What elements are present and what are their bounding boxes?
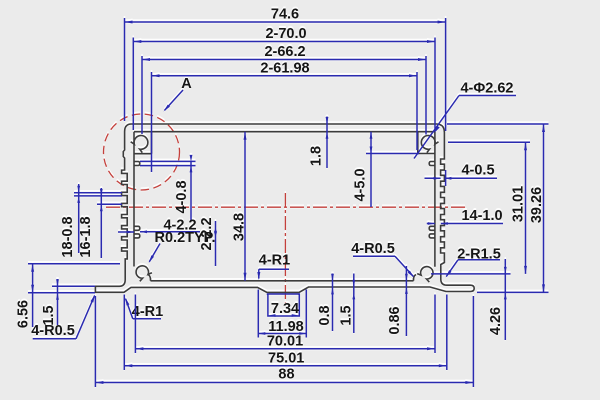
dimension 18-0.8 [60,184,80,258]
svg-text:2-70.0: 2-70.0 [265,26,306,42]
right wall PCB rib 1 [429,162,435,166]
ext lines ribs 0.8 [140,161,196,165]
svg-text:1.8: 1.8 [309,146,325,166]
top-left pocket wall [151,132,153,154]
dimension 2-70.0 [133,26,435,43]
dimension 0.86 bottom [387,266,408,336]
dimension 4-5.0 [353,132,373,207]
svg-text:4-R1: 4-R1 [132,304,163,320]
dimension 2-66.2 [142,44,426,61]
dimension 31.01 [511,142,528,274]
top wall inner line [134,131,435,133]
detail view circle A [104,114,180,190]
left wall PCB rib 2 [134,226,140,230]
svg-text:4-Φ2.62: 4-Φ2.62 [460,81,513,97]
label 4-R1 bottom-left [125,298,163,321]
svg-text:0.86: 0.86 [387,306,403,334]
horizontal centerline [106,206,466,208]
label R0.2TYP [149,230,216,263]
svg-text:4-0.8: 4-0.8 [174,180,190,213]
ext line y=153.5 mid [366,153,419,155]
svg-text:A: A [181,76,192,92]
dimension 4-2.2 [118,218,200,234]
dimension 2-61.98 [152,60,418,77]
svg-text:18-0.8: 18-0.8 [60,216,76,257]
svg-text:4-5.0: 4-5.0 [353,168,369,201]
svg-text:39.26: 39.26 [529,187,545,223]
dimension 6.56 [16,264,35,328]
top-left pocket shelf [134,153,152,155]
dimension 7.34 boxed [268,294,299,317]
ext lines top-left [125,18,152,172]
dimension 34.8 [232,132,248,281]
svg-text:2-2.2: 2-2.2 [199,217,215,250]
label 4-R1 middle [257,253,290,281]
bottom-right screw boss [417,267,433,282]
svg-text:4-R1: 4-R1 [259,253,290,269]
label 2-R1.5 [446,247,501,278]
ext lines bottom rows [95,295,473,388]
label 4-dia2.62 [414,81,516,159]
dimension 16-1.8 [78,188,103,258]
ext line y=124 right [447,123,549,125]
right wall PCB rib 3 [429,234,435,238]
dimension 4-0.5 [425,163,498,187]
label 4-R0.5 right [351,241,414,278]
dimension 70.01 [135,334,435,351]
vertical centerline [284,193,286,303]
ext line y=263.8 left [28,263,120,265]
dimension 11.98 [258,319,306,335]
dimension 14-1.0 [427,208,503,225]
svg-text:34.8: 34.8 [232,213,248,241]
dimension 39.26 [529,124,545,292]
dimension 0.8 bottom [317,274,334,332]
top-right pocket wall [417,132,419,154]
dimension 2-2.2 [199,217,217,266]
svg-text:4-R0.5: 4-R0.5 [351,241,395,257]
ext line y=292.4 right [477,291,549,293]
bottom plate floor line [151,280,414,282]
svg-text:7.34: 7.34 [271,301,299,317]
svg-text:75.01: 75.01 [268,351,304,367]
left wall PCB rib 1 [134,162,140,166]
dimension 1.5 bottom [339,274,356,334]
svg-text:1.5: 1.5 [339,305,355,325]
svg-text:2-66.2: 2-66.2 [264,44,305,60]
dimension 1.8 wall [309,117,329,169]
dimension 75.01 [124,351,447,368]
ext lines top-right [417,18,446,150]
svg-text:4-0.5: 4-0.5 [461,163,494,179]
dimension 4-0.8 [174,155,192,221]
svg-text:0.8: 0.8 [317,305,333,325]
bottom-right floor notch [413,275,416,281]
left wall inner face [133,132,135,267]
svg-text:16-1.8: 16-1.8 [78,216,94,257]
ext lines bottom slot [258,290,306,338]
svg-text:31.01: 31.01 [511,186,527,222]
bottom-left screw boss [136,266,152,281]
ext lines left fins [74,193,122,204]
svg-text:2-61.98: 2-61.98 [260,60,309,76]
dimension 88 [95,367,473,385]
ext line y=286 left [52,285,95,287]
bottom-left floor notch [148,275,151,281]
ext line y=141.5 right [448,141,530,143]
top-left screw boss [131,136,148,153]
top-right pocket shelf [418,153,435,155]
svg-text:70.01: 70.01 [267,334,303,350]
right wall inner face [434,132,436,267]
top-right screw boss [421,136,438,153]
ext line y=274 right [431,273,511,275]
left wall PCB rib 3 [134,234,140,238]
ext line y=292.7 left [28,292,95,294]
svg-text:4-R0.5: 4-R0.5 [31,323,75,339]
dimension 1.5 left [41,279,59,326]
label 4-R0.5 left [31,295,95,339]
svg-text:74.6: 74.6 [271,7,299,23]
svg-text:14-1.0: 14-1.0 [461,208,502,224]
svg-text:6.56: 6.56 [16,300,32,328]
detail label A [164,76,193,112]
svg-text:4.26: 4.26 [488,307,504,335]
right wall PCB rib 2 [429,226,435,230]
dimension 4.26 [488,259,507,340]
dimension 74.6 [125,7,446,24]
profile outer contour (top wall, finned left wall, bottom plate, right wall, mounting tabs) [95,124,474,292]
svg-text:88: 88 [278,367,294,383]
